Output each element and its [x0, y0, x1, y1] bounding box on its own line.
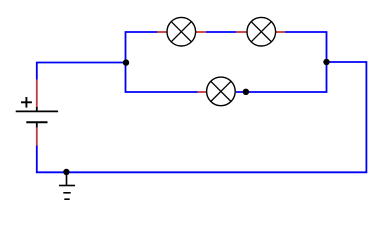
wire lamp L2 to node B (top right corner) — [285, 32, 327, 62]
node D junction dot (ground tap on bottom rail) — [63, 169, 69, 175]
node C junction dot (right of lamp L3) — [243, 89, 249, 95]
battery plus label — [21, 97, 32, 108]
wire battery positive to node A (left horizontal rail) — [37, 63, 126, 80]
wire node B down to middle branch — [236, 62, 327, 92]
node B junction dot — [323, 59, 329, 65]
ground GND — [59, 172, 75, 199]
pin battery positive — [36, 80, 38, 108]
pin lamp L2 right — [276, 31, 285, 33]
lamp L2 — [247, 17, 276, 46]
lamp L3 — [207, 77, 236, 106]
pin battery negative — [36, 127, 38, 146]
pin lamp L3 left — [198, 91, 207, 93]
wire node A up to top branch — [126, 32, 158, 63]
pin lamp L1 right — [196, 31, 207, 33]
lamp L1 — [167, 17, 196, 46]
wire node B to battery negative (right side and bottom rail) — [37, 62, 367, 172]
battery B1 — [16, 107, 58, 127]
wire node A down to lamp L3 (middle branch left) — [126, 63, 198, 93]
wire between lamp L1 and lamp L2 — [206, 31, 236, 33]
pin lamp L2 left — [236, 31, 247, 33]
pin lamp L1 left — [157, 31, 167, 33]
node A junction dot — [123, 59, 129, 65]
